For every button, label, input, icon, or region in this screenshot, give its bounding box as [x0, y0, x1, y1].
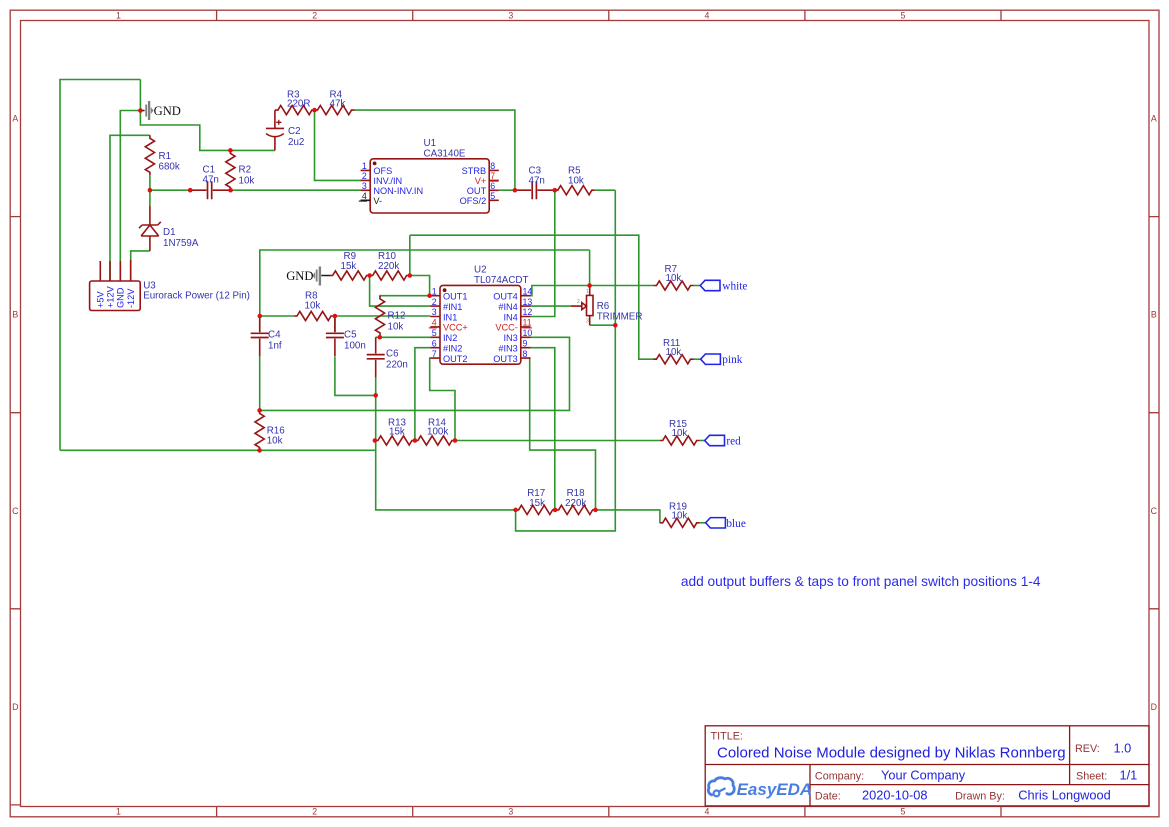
wire pin7 down: [430, 358, 455, 440]
svg-text:5: 5: [900, 807, 905, 817]
svg-text:3: 3: [586, 319, 589, 325]
svg-text:#IN2: #IN2: [443, 344, 462, 354]
svg-text:STRB: STRB: [462, 166, 487, 176]
wire R15 to red flag: [700, 440, 705, 442]
wire R16 bottom row: [60, 449, 375, 451]
svg-text:Sheet:: Sheet:: [1076, 771, 1107, 783]
net flag red: [705, 435, 741, 447]
resistor R19 10k: [660, 502, 700, 528]
wire C4 column: [259, 316, 261, 410]
svg-text:C2: C2: [288, 126, 301, 137]
svg-text:680k: 680k: [159, 162, 180, 173]
svg-text:10k: 10k: [672, 511, 688, 522]
wire R18 to R19 blue jog: [596, 510, 660, 523]
svg-text:U1: U1: [424, 138, 437, 149]
svg-text:3: 3: [508, 11, 513, 21]
svg-text:#IN4: #IN4: [498, 302, 517, 312]
svg-text:15k: 15k: [529, 498, 545, 509]
wire gnd1 left branch: [120, 111, 140, 282]
wire pin13 to trimmer wiper: [531, 305, 571, 307]
svg-text:220n: 220n: [386, 360, 408, 371]
resistor R17 15k: [516, 488, 556, 515]
svg-text:1nf: 1nf: [268, 341, 282, 352]
svg-text:5: 5: [432, 328, 437, 338]
wire R1 bottom: [149, 175, 151, 190]
svg-text:TRIMMER: TRIMMER: [597, 312, 643, 323]
svg-text:+5V: +5V: [96, 291, 106, 308]
svg-text:10k: 10k: [267, 436, 283, 447]
svg-text:OUT: OUT: [467, 186, 487, 196]
wire pin9 down: [531, 348, 555, 510]
svg-text:4: 4: [362, 191, 367, 201]
svg-text:VCC-: VCC-: [495, 323, 517, 333]
resistor R9 15k: [330, 251, 370, 280]
svg-text:2: 2: [577, 299, 580, 305]
svg-text:7: 7: [432, 349, 437, 359]
svg-text:1: 1: [116, 807, 121, 817]
wire R9R10 junction to pin2: [370, 276, 431, 307]
svg-text:OFS: OFS: [373, 166, 392, 176]
resistor R12 10k: [375, 296, 405, 336]
resistor R15 10k: [660, 419, 700, 445]
title block: [705, 726, 1149, 806]
wire pin6 down: [415, 348, 430, 441]
svg-text:REV:: REV:: [1075, 743, 1100, 755]
svg-text:10k: 10k: [666, 273, 682, 284]
net flag white: [700, 280, 747, 292]
svg-text:D: D: [12, 702, 18, 712]
diode D1 1N759A zener: [139, 206, 199, 251]
svg-text:3: 3: [362, 181, 367, 191]
svg-text:4: 4: [704, 11, 709, 21]
wire R19 to blue flag: [700, 522, 706, 524]
svg-text:10k: 10k: [239, 176, 255, 187]
op-amp U2 TL074ACDT: [429, 265, 533, 365]
resistor R1 680k: [145, 135, 180, 175]
svg-text:Date:: Date:: [815, 791, 841, 803]
svg-text:3: 3: [508, 807, 513, 817]
svg-text:Chris Longwood: Chris Longwood: [1018, 788, 1110, 803]
svg-text:47n: 47n: [529, 176, 545, 187]
svg-text:10k: 10k: [672, 428, 688, 439]
resistor R3 220R: [275, 90, 315, 115]
svg-text:1N759A: 1N759A: [163, 238, 199, 249]
op-amp U1 CA3140E: [359, 138, 499, 213]
wire white noise long feedback: [260, 250, 590, 316]
wire left rail top: [60, 80, 140, 451]
resistor R13 15k: [375, 418, 415, 446]
wire gnd1 drop: [140, 80, 275, 151]
resistor R11 10k: [654, 338, 694, 364]
svg-text:R12: R12: [388, 311, 406, 322]
svg-text:IN2: IN2: [443, 333, 457, 343]
resistor R18 220k: [556, 488, 596, 515]
resistor R4 47k: [315, 90, 355, 115]
svg-text:1/1: 1/1: [1120, 768, 1138, 783]
junction dots: [138, 108, 618, 512]
svg-text:D: D: [1151, 702, 1157, 712]
wire pink feedback: [410, 235, 657, 359]
svg-text:1: 1: [432, 286, 437, 296]
resistor R7 10k: [654, 264, 694, 290]
svg-text:C: C: [12, 506, 19, 516]
svg-text:12: 12: [523, 307, 533, 317]
resistor R14 100k: [415, 418, 455, 446]
svg-text:Company:: Company:: [815, 770, 864, 782]
capacitor C4 1nf: [251, 316, 282, 356]
wire U1 pin6 out row: [499, 189, 616, 191]
svg-text:red: red: [726, 436, 741, 448]
svg-text:#IN1: #IN1: [443, 302, 462, 312]
svg-text:GND: GND: [286, 269, 313, 283]
svg-text:2: 2: [362, 171, 367, 181]
svg-text:1.0: 1.0: [1114, 740, 1132, 755]
svg-text:+12V: +12V: [105, 285, 115, 308]
svg-text:1: 1: [116, 11, 121, 21]
svg-text:R6: R6: [597, 301, 610, 312]
capacitor C3 47n: [515, 166, 555, 200]
resistor R16 10k: [255, 410, 285, 450]
capacitor C6 220n: [367, 337, 408, 377]
svg-text:blue: blue: [726, 518, 745, 530]
svg-text:R2: R2: [239, 165, 252, 176]
wire R4 to U1 out: [355, 110, 515, 190]
svg-text:10k: 10k: [568, 176, 584, 187]
wire D1 top lead: [149, 190, 151, 205]
svg-text:3: 3: [432, 307, 437, 317]
resistor R2 10k: [226, 150, 255, 190]
svg-text:C: C: [1151, 506, 1158, 516]
svg-text:10k: 10k: [666, 347, 682, 358]
svg-text:Drawn By:: Drawn By:: [955, 791, 1005, 803]
svg-text:2u2: 2u2: [288, 137, 304, 148]
wire R5 down: [516, 190, 616, 531]
wire R8 row to pin3: [260, 315, 431, 317]
svg-text:7: 7: [490, 171, 495, 181]
power connector U3 Eurorack: [90, 260, 250, 311]
svg-text:100k: 100k: [427, 427, 448, 438]
svg-text:IN4: IN4: [503, 312, 517, 322]
svg-text:U2: U2: [474, 265, 487, 276]
svg-text:13: 13: [523, 297, 533, 307]
svg-text:B: B: [12, 310, 18, 320]
svg-text:2: 2: [432, 297, 437, 307]
wire pin8 down: [530, 358, 596, 510]
svg-text:C5: C5: [344, 330, 357, 341]
svg-text:5: 5: [900, 11, 905, 21]
svg-text:1: 1: [586, 289, 589, 295]
svg-text:C6: C6: [386, 349, 399, 360]
svg-text:B: B: [1151, 310, 1157, 320]
wire R10 to pin1: [410, 276, 430, 296]
svg-text:white: white: [722, 281, 747, 293]
wire R3R4 junction to U1 pin2: [315, 110, 361, 180]
svg-text:1: 1: [362, 161, 367, 171]
wire R12 bottom to pin5: [376, 336, 431, 338]
wire white row junction drop: [589, 250, 591, 286]
net flag pink: [701, 354, 743, 366]
svg-text:A: A: [1151, 114, 1157, 124]
wire pin14 jog to white row: [531, 286, 654, 296]
resistor R8 10k: [294, 291, 334, 321]
svg-text:2: 2: [312, 11, 317, 21]
svg-text:OUT3: OUT3: [493, 354, 518, 364]
svg-text:C4: C4: [268, 330, 281, 341]
svg-text:47n: 47n: [203, 175, 219, 186]
svg-text:IN3: IN3: [503, 333, 517, 343]
svg-text:14: 14: [523, 286, 533, 296]
svg-text:15k: 15k: [389, 427, 405, 438]
svg-text:OUT2: OUT2: [443, 354, 468, 364]
svg-text:2: 2: [312, 807, 317, 817]
svg-text:10k: 10k: [305, 301, 321, 312]
svg-text:INV./IN: INV./IN: [373, 176, 402, 186]
svg-text:#IN3: #IN3: [498, 344, 517, 354]
wire R11 to pink flag: [694, 358, 701, 360]
svg-text:6: 6: [432, 338, 437, 348]
capacitor C1 47n: [190, 165, 230, 200]
svg-text:220k: 220k: [378, 261, 399, 272]
svg-text:pink: pink: [722, 354, 742, 366]
resistor R10 220k: [370, 251, 410, 280]
svg-text:R1: R1: [159, 151, 172, 162]
svg-text:Your Company: Your Company: [881, 767, 966, 782]
ground GND1: [140, 101, 180, 120]
svg-text:VCC+: VCC+: [443, 323, 468, 333]
wire C5C6 junction down to R17: [376, 395, 516, 510]
svg-text:15k: 15k: [341, 261, 357, 272]
capacitor C5 100n: [326, 316, 366, 356]
svg-text:V-: V-: [373, 196, 382, 206]
wire R7 to white flag: [694, 285, 701, 287]
svg-text:GND: GND: [154, 104, 181, 118]
capacitor C2 2u2 electrolytic: [266, 110, 304, 150]
svg-text:add output buffers & taps to f: add output buffers & taps to front panel…: [681, 574, 1041, 589]
wire R14 to R15 red row: [455, 440, 660, 442]
svg-text:TL074ACDT: TL074ACDT: [474, 275, 528, 286]
net flag blue: [706, 518, 746, 530]
svg-text:100n: 100n: [344, 341, 366, 352]
svg-text:Eurorack Power (12 Pin): Eurorack Power (12 Pin): [143, 291, 250, 302]
wire pin1 to R12 top: [380, 296, 430, 297]
ground GND2: [286, 267, 330, 286]
svg-text:GND: GND: [116, 287, 126, 308]
svg-text:4: 4: [432, 318, 437, 328]
svg-text:CA3140E: CA3140E: [424, 149, 466, 160]
svg-text:OFS/2: OFS/2: [460, 196, 487, 206]
wire D1 bottom to -12V: [131, 251, 150, 281]
svg-text:V+: V+: [475, 176, 487, 186]
svg-text:10k: 10k: [388, 322, 404, 333]
svg-text:Colored Noise Module designed: Colored Noise Module designed by Niklas …: [717, 744, 1066, 761]
wire C5 column: [335, 316, 376, 395]
trimmer R6: [571, 286, 643, 326]
resistor R5 10k: [555, 166, 595, 195]
svg-text:220R: 220R: [287, 99, 310, 110]
svg-text:4: 4: [704, 807, 709, 817]
svg-text:2020-10-08: 2020-10-08: [862, 788, 927, 803]
svg-text:OUT4: OUT4: [493, 292, 518, 302]
wire trimmer bottom: [590, 324, 616, 326]
svg-text:-12V: -12V: [126, 288, 136, 308]
wire C3 junction down to U2 pin12: [531, 190, 555, 316]
svg-text:OUT1: OUT1: [443, 292, 468, 302]
svg-text:10: 10: [523, 328, 533, 338]
svg-text:NON-INV.IN: NON-INV.IN: [373, 186, 423, 196]
svg-text:TITLE:: TITLE:: [711, 731, 743, 743]
wire C6 bottom: [375, 377, 377, 395]
svg-text:9: 9: [523, 338, 528, 348]
wire main row to U1 pin3: [150, 189, 361, 191]
svg-text:IN1: IN1: [443, 312, 457, 322]
EasyEDA logo: [708, 778, 734, 797]
svg-text:5: 5: [490, 191, 495, 201]
svg-text:A: A: [12, 114, 18, 124]
svg-text:8: 8: [523, 349, 528, 359]
svg-text:11: 11: [523, 318, 532, 328]
svg-text:D1: D1: [163, 227, 176, 238]
svg-text:EasyEDA: EasyEDA: [737, 780, 813, 799]
svg-text:8: 8: [490, 161, 495, 171]
svg-text:6: 6: [490, 181, 495, 191]
svg-text:47k: 47k: [330, 99, 346, 110]
wire +12V rail: [110, 135, 150, 281]
svg-text:220k: 220k: [565, 498, 586, 509]
wire R16 top row / pin10 net: [260, 337, 570, 410]
